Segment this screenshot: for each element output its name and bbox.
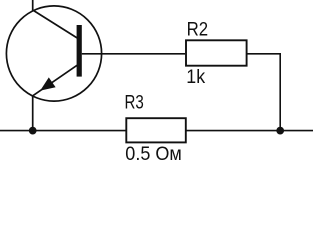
svg-text:1k: 1k xyxy=(186,67,205,88)
wire: emitter lead (to bottom rail) xyxy=(33,65,77,130)
svg-text:R3: R3 xyxy=(125,92,144,114)
transistor Q1 base bar xyxy=(77,25,82,77)
wire: R2 to right rail corner xyxy=(248,54,281,131)
wire: collector lead (top) xyxy=(33,0,77,38)
wire: base lead to R2 xyxy=(82,53,185,55)
wire: bottom rail xyxy=(0,130,313,132)
resistor R3 xyxy=(126,118,186,142)
resistor R2 xyxy=(186,40,247,65)
svg-text:0.5 Ом: 0.5 Ом xyxy=(125,144,182,165)
svg-text:R2: R2 xyxy=(187,19,209,41)
transistor Q1 body circle xyxy=(6,6,101,101)
emitter arrow (NPN) xyxy=(40,77,55,90)
junction dot left xyxy=(29,127,37,135)
junction dot right xyxy=(276,127,284,135)
